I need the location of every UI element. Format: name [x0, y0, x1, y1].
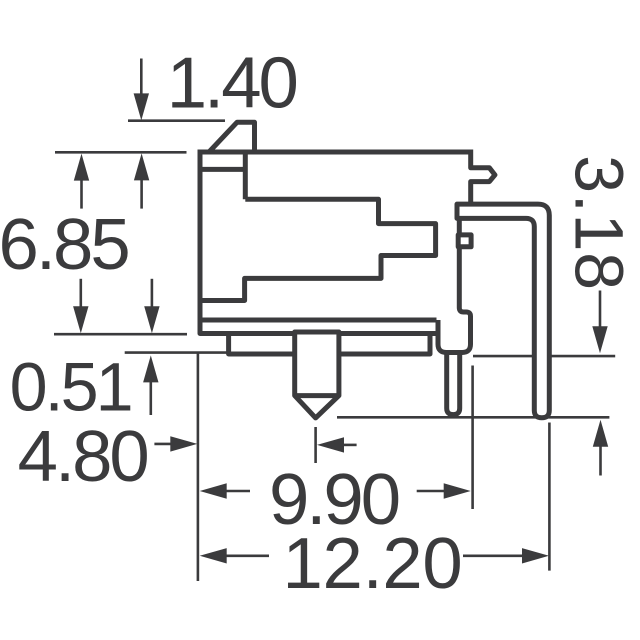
dimension 0.51 lower extension line (plate bottom) — [125, 351, 229, 354]
dimension 3.18 up arrow — [593, 420, 608, 447]
dimension 1.40 up arrow — [134, 153, 149, 180]
top-left wall band line — [200, 167, 245, 172]
dimension 3.18 upper extension line (boss bottom) — [473, 355, 615, 358]
dimension 0.51 up arrow — [143, 355, 158, 382]
svg-text:4.80: 4.80 — [18, 416, 148, 497]
bottom extension line (pin tips) — [337, 416, 609, 419]
base plate — [229, 334, 430, 355]
body inner bottom line — [200, 318, 437, 323]
dimension 12.20 right extension line (lead outer edge) — [548, 423, 551, 571]
dimension 4.80 right-pointing arrow — [154, 443, 172, 446]
latch on top — [209, 122, 255, 152]
dimension 9.90 left arrow — [200, 483, 227, 498]
dimension 6.85 up arrow — [74, 154, 89, 181]
dimension 6.85 down arrow — [80, 279, 83, 308]
dimension 9.90 right extension line — [471, 366, 474, 510]
inner slot contour — [200, 199, 436, 300]
dimension 4.80 left-pointing arrow — [317, 437, 344, 452]
svg-text:1.40: 1.40 — [167, 42, 297, 123]
dimension 6.85 top extension line (body top) — [55, 151, 187, 154]
dimension 6.85 bottom extension line (body bottom) — [54, 333, 187, 336]
body right edge with pointed tab — [471, 150, 495, 204]
dimension 12.20 right arrow — [463, 554, 524, 557]
through-hole pin (left) — [447, 354, 460, 415]
svg-text:3.18: 3.18 — [561, 155, 637, 291]
peg center extension line — [314, 427, 317, 463]
dimension 1.40 extension line (latch top) — [128, 119, 225, 122]
center peg chord — [295, 393, 339, 398]
left vertical extension line (body left edge) — [197, 353, 200, 581]
top-left band vertical — [243, 152, 248, 199]
dimension 3.18 down arrow — [599, 291, 602, 330]
connector body top edge — [200, 150, 471, 155]
connector body left edge and bottom edge — [200, 150, 438, 334]
wall window square — [458, 235, 471, 247]
dimension 0.51 down arrow — [151, 279, 154, 308]
svg-text:0.51: 0.51 — [10, 350, 131, 426]
dimension 1.40 down arrow — [140, 59, 143, 96]
svg-text:6.85: 6.85 — [0, 204, 128, 285]
svg-text:12.20: 12.20 — [283, 523, 463, 604]
dimension 12.20 left arrow — [200, 548, 227, 563]
bent solder lead — [457, 204, 549, 418]
right wall edge and boss foot — [438, 204, 471, 353]
dimension 9.90 right arrow — [417, 490, 446, 493]
center peg — [295, 332, 339, 418]
